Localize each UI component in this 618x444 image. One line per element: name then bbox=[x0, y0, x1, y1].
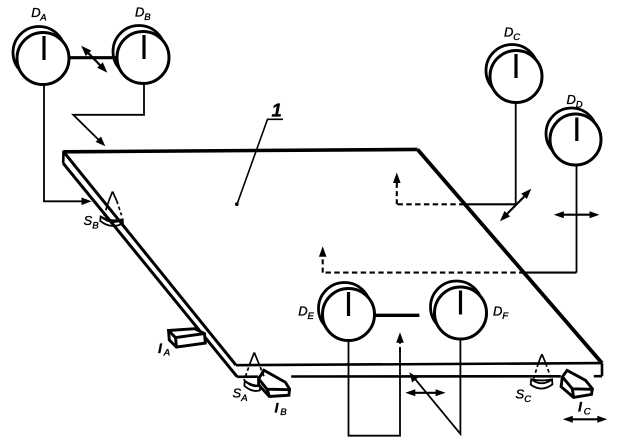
plate top-left corner vertical bbox=[62, 151, 65, 164]
label IC bbox=[578, 399, 591, 418]
svg-text:A: A bbox=[39, 13, 46, 24]
plate bottom edge (lower slab line, interrupted by boxes IB and IC) bbox=[237, 375, 602, 378]
arrowhead up on plate bbox=[319, 246, 327, 256]
solid horizontal from DD wire to plate edge bbox=[525, 272, 577, 274]
source SC cone apex bbox=[538, 354, 546, 363]
dial DB bbox=[113, 26, 169, 84]
svg-text:D: D bbox=[576, 99, 583, 110]
label DD bbox=[567, 92, 583, 111]
svg-text:S: S bbox=[84, 213, 93, 228]
svg-text:D: D bbox=[504, 25, 513, 40]
dial DC bbox=[486, 45, 542, 103]
label DA bbox=[31, 5, 46, 23]
svg-text:D: D bbox=[298, 303, 307, 318]
solid horizontal from DC wire to plate edge bbox=[465, 203, 516, 205]
wire from DA down and arrow to left edge bbox=[44, 85, 92, 205]
svg-text:B: B bbox=[144, 12, 151, 23]
svg-text:I: I bbox=[275, 399, 280, 415]
plate 1 top surface outline bbox=[63, 149, 602, 376]
svg-text:S: S bbox=[516, 386, 525, 401]
double diagonal arrow at right edge bbox=[500, 189, 531, 222]
source SB cone apex bbox=[109, 192, 117, 202]
dial DD bbox=[546, 108, 601, 165]
svg-text:1: 1 bbox=[272, 99, 282, 120]
wire from DD down bbox=[576, 165, 578, 272]
svg-text:C: C bbox=[584, 406, 591, 417]
source SA dish bbox=[244, 381, 260, 391]
label DF bbox=[493, 303, 509, 322]
svg-text:D: D bbox=[135, 5, 144, 20]
plate left edge (lower slab line) bbox=[63, 163, 237, 376]
source SB cone dashed legs bbox=[104, 201, 122, 216]
svg-text:C: C bbox=[513, 32, 520, 43]
dial DE bbox=[319, 283, 375, 341]
svg-text:D: D bbox=[31, 5, 40, 20]
source SC dish bbox=[531, 379, 553, 388]
svg-text:B: B bbox=[280, 407, 287, 418]
label DE bbox=[298, 303, 314, 322]
label IB bbox=[275, 399, 288, 418]
arrowhead up on plate bbox=[393, 173, 401, 184]
label SB bbox=[84, 213, 100, 232]
horizontal double arrow below bottom edge bbox=[405, 389, 445, 396]
dial DF bbox=[431, 281, 487, 339]
source SC cone dashed legs bbox=[534, 363, 551, 378]
connecting line DA-DB bbox=[69, 56, 117, 59]
source SB dish on left edge bbox=[100, 217, 123, 226]
horizontal double arrow below IC bbox=[563, 416, 608, 423]
sensor box IC bbox=[561, 370, 592, 397]
source SA cone dashed legs bbox=[244, 361, 265, 381]
plate bottom-right corner vertical bbox=[601, 363, 604, 376]
connecting line DE-DF bbox=[375, 314, 419, 317]
wire from DF down and diagonal arrow to bottom edge bbox=[409, 339, 460, 434]
label DC bbox=[504, 25, 520, 43]
hidden dashed vertical up bbox=[322, 256, 324, 273]
wire from DE down, across, and hidden arrow up bbox=[349, 332, 404, 435]
wire from DB down-left and arrow to top edge bbox=[73, 84, 144, 146]
plate top edge bbox=[64, 149, 418, 151]
horizontal double arrow near DD bbox=[554, 211, 600, 218]
svg-text:A: A bbox=[240, 393, 247, 404]
plate left edge (surface line) bbox=[64, 152, 236, 365]
dial DA bbox=[13, 27, 69, 85]
label DB bbox=[135, 5, 151, 24]
svg-text:C: C bbox=[524, 394, 531, 405]
svg-text:B: B bbox=[92, 221, 99, 232]
sensor box IB bbox=[259, 370, 290, 396]
wire from DC down bbox=[515, 103, 517, 205]
svg-text:A: A bbox=[163, 348, 170, 359]
plate bottom edge (surface line) bbox=[236, 363, 602, 365]
svg-text:S: S bbox=[233, 386, 242, 401]
hidden dashed horizontal over plate bbox=[323, 272, 525, 274]
plate right edge bbox=[418, 149, 603, 363]
sensor box IA bbox=[169, 329, 206, 347]
hidden dashed vertical up bbox=[396, 182, 398, 204]
label IA bbox=[158, 340, 170, 359]
label SC bbox=[516, 386, 532, 405]
svg-text:I: I bbox=[158, 340, 163, 356]
label SA bbox=[233, 386, 248, 405]
svg-text:E: E bbox=[308, 311, 315, 322]
svg-text:D: D bbox=[493, 303, 502, 318]
source SA cone apex bbox=[251, 353, 258, 362]
double arrow between DA and DB bbox=[81, 46, 107, 73]
hidden dashed horizontal over plate to arrow bbox=[397, 203, 465, 205]
svg-text:I: I bbox=[578, 399, 583, 415]
svg-text:D: D bbox=[567, 92, 576, 107]
leader line for label 1 bbox=[235, 119, 283, 206]
svg-text:F: F bbox=[502, 311, 509, 322]
